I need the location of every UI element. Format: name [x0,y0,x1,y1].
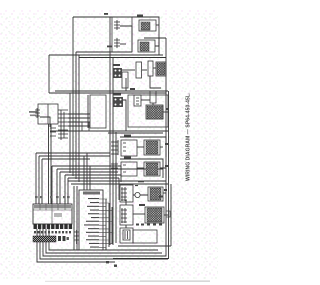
svg-text:WIRING DIAGRAM — SP64-450-45L.: WIRING DIAGRAM — SP64-450-45L. [186,92,192,181]
